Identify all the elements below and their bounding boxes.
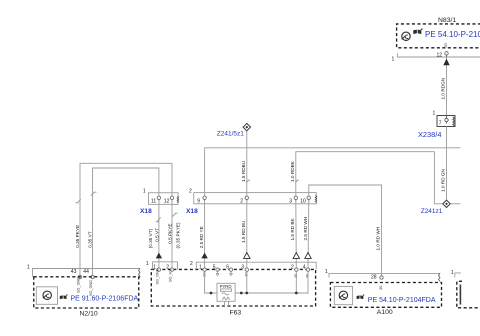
svg-text:1: 1 xyxy=(325,269,328,275)
junction dot left xyxy=(210,292,213,295)
crimp jog on wire 43 xyxy=(75,199,80,203)
F63 internal label b2 pin3 xyxy=(245,272,249,276)
wire tail right of splice Z241z1 xyxy=(450,203,460,205)
arrow filled on pin11 wire xyxy=(156,253,162,259)
svg-text:X18: X18 xyxy=(186,208,198,215)
svg-text:6: 6 xyxy=(226,264,229,270)
svg-text:0.5 VT: 0.5 VT xyxy=(154,228,159,242)
X18 pin 2 contact xyxy=(245,196,248,199)
wire label 2.5 RD WH xyxy=(303,217,308,241)
PYRO fuse box xyxy=(217,283,235,301)
N2/10 dashed box xyxy=(34,277,139,308)
svg-text:PE 54.10-P-2105FDA: PE 54.10-P-2105FDA xyxy=(425,30,480,39)
svg-text:1.0 RDGN: 1.0 RDGN xyxy=(441,78,446,100)
svg-text:SG_GND: SG_GND xyxy=(89,280,93,296)
svg-text:30: 30 xyxy=(379,286,383,290)
svg-text:2: 2 xyxy=(240,198,243,204)
wire bus line1 from X18 pin 9 xyxy=(205,148,461,196)
wire X18 pin 10 down to F63 xyxy=(307,200,310,268)
junction dot pin2 xyxy=(295,292,298,295)
svg-text:F63: F63 xyxy=(230,309,242,316)
A100 icon circle xyxy=(339,291,348,299)
right component dashed box xyxy=(457,281,480,308)
arrow open on pin3 wire xyxy=(293,253,299,259)
wire X238/4 down to splice Z241z1 xyxy=(446,127,448,201)
N2/10 icon box xyxy=(36,287,57,305)
N83/1 pin 12 contact xyxy=(445,52,448,55)
connector X18 box 2 xyxy=(194,193,317,204)
svg-text:0.5 PKYE: 0.5 PKYE xyxy=(167,223,172,243)
svg-text:Z241/5z1: Z241/5z1 xyxy=(217,130,244,137)
X238/4 socket contact xyxy=(445,118,448,121)
wire X18 pin 9 down to F63 xyxy=(204,200,206,268)
crimp jog on pin 11 wire xyxy=(156,217,161,221)
svg-text:3: 3 xyxy=(289,198,292,204)
X18 pin 9 contact xyxy=(203,196,206,199)
A100 internal label pin28 xyxy=(379,286,383,290)
svg-text:1.5 RD BU: 1.5 RD BU xyxy=(241,220,246,243)
F63 internal label b2 pin1 xyxy=(202,272,206,276)
svg-text:7: 7 xyxy=(439,120,442,126)
N2/10 internal label pin44 xyxy=(89,280,93,296)
wire label 1.5 RDBU (upper) xyxy=(241,160,246,182)
right component icon box edge xyxy=(459,285,461,305)
svg-text:1.5 RDBU: 1.5 RDBU xyxy=(241,160,246,182)
PYRO legs to ground xyxy=(225,301,229,306)
F63 internal stub pin6 xyxy=(229,272,232,276)
F63 b1 pin2 contact xyxy=(170,268,173,271)
crimp jog on pin 12 wire xyxy=(172,213,177,217)
A100 book icon xyxy=(357,294,365,299)
svg-text:A100: A100 xyxy=(377,309,393,316)
F63 internal label b2 pin4 xyxy=(306,274,310,278)
X18 pin 10 contact xyxy=(307,196,310,199)
N2/10 book icon xyxy=(60,294,68,299)
junction dot pin3 xyxy=(245,292,248,295)
F63 internal wire pin2 down xyxy=(295,272,297,294)
X238/4 torn-edge squiggle xyxy=(453,117,455,126)
svg-text:(0.35 VT): (0.35 VT) xyxy=(148,228,153,248)
svg-text:0.35 VT: 0.35 VT xyxy=(87,231,92,248)
svg-text:PYRO: PYRO xyxy=(220,284,233,289)
F63 dashed box xyxy=(151,269,315,306)
N2/10 pin 43 contact xyxy=(78,275,81,278)
connector X18 box 1 xyxy=(149,193,179,205)
svg-text:43: 43 xyxy=(71,269,77,275)
N2/10 icon circle xyxy=(43,291,52,299)
A100 icon box xyxy=(334,286,352,304)
F63 b2 pin1 contact xyxy=(203,268,206,271)
junction dot mid xyxy=(240,292,243,295)
wire X18 pin 3 down to F63 xyxy=(295,200,298,268)
svg-text:SG_HS: SG_HS xyxy=(169,269,173,282)
svg-text:SG_GND: SG_GND xyxy=(156,268,160,284)
arrow up at N83/1 xyxy=(443,59,449,66)
svg-text:1: 1 xyxy=(27,264,30,270)
svg-text:30: 30 xyxy=(444,43,448,47)
svg-text:10: 10 xyxy=(300,198,306,204)
svg-text:PE 54.10-P-2104FDA: PE 54.10-P-2104FDA xyxy=(368,297,436,304)
F63 bracket 2 xyxy=(196,262,316,269)
splice Z241/5z1 diamond xyxy=(243,123,250,130)
svg-text:1.0 RD GN: 1.0 RD GN xyxy=(441,169,446,192)
N2/10 bracket xyxy=(33,269,141,277)
PYRO squiggle xyxy=(222,293,229,295)
svg-text:2: 2 xyxy=(190,261,193,267)
wire label 0.35 VT xyxy=(87,231,92,248)
svg-text:28: 28 xyxy=(371,274,377,280)
F63 internal stub pin5 xyxy=(216,272,219,276)
A100 pin 28 contact xyxy=(380,276,383,279)
wire label 1.0 RDGN (lower) xyxy=(441,169,446,192)
N83/1 component icon circle xyxy=(402,32,411,40)
svg-text:Z241z1: Z241z1 xyxy=(421,208,443,215)
wire label 1.0 RDBK (upper) xyxy=(290,160,295,182)
svg-text:1.0 RD WH: 1.0 RD WH xyxy=(376,227,381,251)
svg-text:(0.35 PKYE): (0.35 PKYE) xyxy=(176,222,181,248)
svg-text:PE 91.60-P-2106FDA: PE 91.60-P-2106FDA xyxy=(71,296,139,303)
F63 b1 pin1 contact xyxy=(157,268,160,271)
wire label (0.35 PKYE) xyxy=(176,222,181,248)
F63 b2 pin3 contact xyxy=(245,268,248,271)
wire X18 pin 10 to A100 pin 28 xyxy=(309,185,382,276)
A100 torn edge xyxy=(439,273,441,281)
wire X18 pin 2 down to F63 xyxy=(246,200,248,268)
svg-text:9: 9 xyxy=(197,198,200,204)
N83/1 pin 12 internal label xyxy=(444,43,448,47)
connector X238/4 box xyxy=(437,116,455,127)
A100 dashed box xyxy=(330,283,441,308)
svg-text:12: 12 xyxy=(437,53,443,59)
wire bus line2 from X18 pin 3 to splice Z241z1 xyxy=(296,152,443,204)
PYRO fuse element xyxy=(221,289,232,291)
X18 box1 torn-edge squiggle xyxy=(177,197,178,203)
right component bracket xyxy=(455,273,461,277)
svg-text:12: 12 xyxy=(164,199,170,205)
wire X18 pin 11 down to F63 xyxy=(158,200,160,268)
F63 b2 pin2 contact xyxy=(295,268,298,271)
svg-text:1.0 RDBK: 1.0 RDBK xyxy=(290,160,295,182)
svg-text:3: 3 xyxy=(241,264,244,270)
N83/1 bracket with pin row xyxy=(398,53,480,57)
arrow filled on pin9 wire xyxy=(201,253,207,259)
F63 internal label pin1 b1 xyxy=(156,268,160,284)
svg-text:N83/1: N83/1 xyxy=(438,17,456,24)
wire X18 pin 12 down to F63 xyxy=(171,200,173,268)
wire N2/10 pin 44 to X18 pin 11 xyxy=(93,168,159,275)
control unit N83/1 dashed box xyxy=(397,24,480,48)
svg-text:2.5 RD YE: 2.5 RD YE xyxy=(199,226,204,248)
wire from N83/1 pin 12 down xyxy=(446,57,448,116)
wire label 1.5 RD BK xyxy=(290,217,295,240)
wire splice Z241/5z1 down to X18 pin 2 xyxy=(246,131,248,196)
svg-text:N2/10: N2/10 xyxy=(80,311,98,318)
svg-text:SG_GND: SG_GND xyxy=(77,277,81,293)
N2/10 internal label pin43 xyxy=(77,277,81,293)
wire label 0.5 PKYE xyxy=(167,223,172,243)
svg-text:4: 4 xyxy=(303,264,306,270)
crimp jog on wire 44 xyxy=(91,192,97,196)
svg-text:1: 1 xyxy=(199,264,202,270)
F63 bracket 1 xyxy=(153,262,178,270)
crimp jog above X18 pin 3 xyxy=(295,180,299,182)
svg-text:5: 5 xyxy=(213,264,216,270)
svg-text:1: 1 xyxy=(392,57,395,63)
F63 internal wire rail xyxy=(205,272,308,294)
wire label 2.5 RD YE xyxy=(199,226,204,248)
wire label 1.0 RDGN (upper) xyxy=(441,78,446,100)
wire label 1.5 RD BU xyxy=(241,220,246,243)
A100 bracket xyxy=(329,273,440,277)
F63 internal label pin2 b1 xyxy=(169,269,173,282)
X18 pin 3 contact xyxy=(294,196,297,199)
wire label 1.0 RD WH xyxy=(376,227,381,251)
svg-text:1: 1 xyxy=(143,188,146,194)
X18 box2 torn-edge squiggle xyxy=(315,196,316,203)
svg-text:1: 1 xyxy=(451,270,454,276)
X18 pin 11 contact xyxy=(157,196,160,199)
arrow open on pin10 wire xyxy=(305,253,311,259)
F63 internal label b2 pin2 xyxy=(294,274,298,278)
svg-text:0.35 PKYE: 0.35 PKYE xyxy=(75,225,80,248)
wire label 0.35 PKYE xyxy=(75,225,80,248)
F63 internal wire pin3 down xyxy=(246,272,248,294)
svg-text:1.5 RD BK: 1.5 RD BK xyxy=(290,217,295,240)
wire label 0.5 VT xyxy=(154,228,159,242)
crimp jog above X18 pin 2 xyxy=(246,180,250,182)
svg-text:1: 1 xyxy=(433,111,436,117)
wire N2/10 pin 43 to X18 pin 12 xyxy=(80,163,172,275)
N83/1 book icon xyxy=(413,28,422,34)
svg-text:44: 44 xyxy=(83,269,89,275)
N2/10 pin 44 contact xyxy=(91,275,94,278)
arrow open on pin2 wire xyxy=(244,253,250,259)
wire label (0.35 VT) xyxy=(148,228,153,248)
N2/10 torn edge xyxy=(139,269,141,279)
svg-text:X18: X18 xyxy=(140,208,152,215)
svg-text:X238/4: X238/4 xyxy=(418,130,441,139)
svg-text:11: 11 xyxy=(151,199,156,205)
X18 pin 12 contact xyxy=(170,196,173,199)
svg-text:2.5 RD WH: 2.5 RD WH xyxy=(303,217,308,241)
PYRO igniter zigzag xyxy=(222,297,230,300)
svg-text:2: 2 xyxy=(291,264,294,270)
svg-text:1: 1 xyxy=(146,261,149,267)
splice Z241z1 diamond xyxy=(443,200,450,207)
F63 b2 pin4 contact xyxy=(306,268,309,271)
F63 b2 pin6 contact xyxy=(229,268,232,271)
F63 b2 pin5 contact xyxy=(216,268,219,271)
svg-text:2: 2 xyxy=(189,188,192,194)
